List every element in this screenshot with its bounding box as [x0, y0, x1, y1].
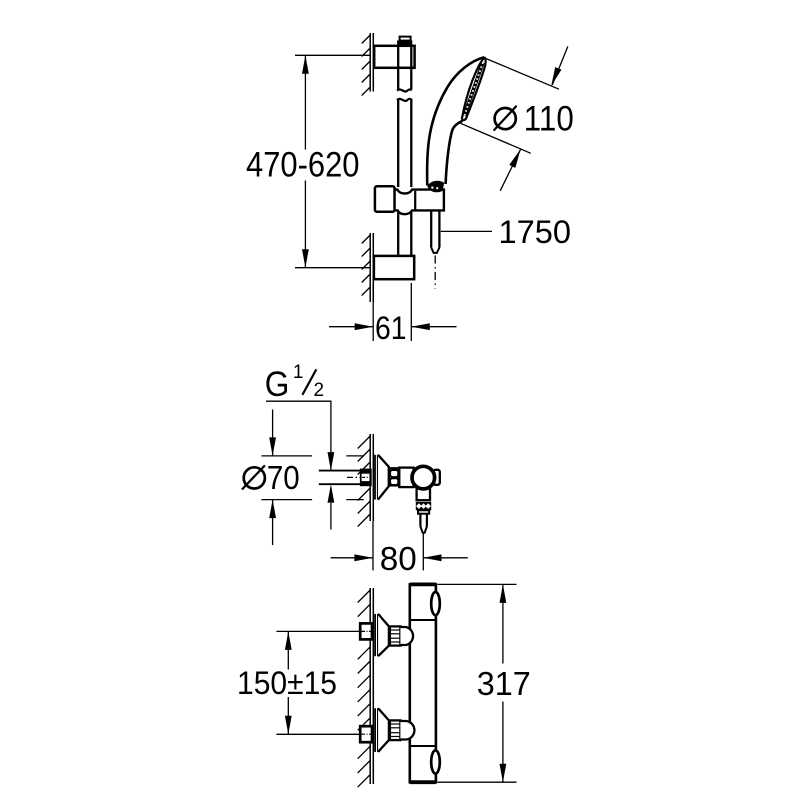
svg-text:61: 61 [375, 310, 407, 346]
svg-text:150±15: 150±15 [237, 665, 337, 701]
svg-text:1750: 1750 [499, 214, 572, 250]
svg-text:80: 80 [380, 541, 417, 578]
svg-text:G: G [265, 365, 290, 404]
svg-text:1: 1 [293, 362, 304, 383]
svg-text:2: 2 [314, 380, 325, 401]
svg-text:317: 317 [477, 666, 531, 703]
svg-text:470-620: 470-620 [246, 146, 360, 185]
svg-text:70: 70 [267, 460, 300, 497]
svg-text:110: 110 [524, 100, 574, 139]
